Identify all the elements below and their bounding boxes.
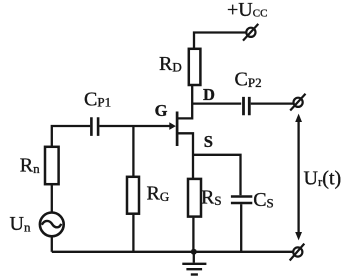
svg-text:Rn: Rn [20,155,40,177]
svg-text:CS: CS [253,189,274,211]
svg-text:+UCC: +UCC [227,0,267,21]
svg-text:CP2: CP2 [235,69,262,91]
svg-text:Ur(t): Ur(t) [304,168,342,190]
svg-text:Un: Un [10,213,31,235]
svg-text:CP1: CP1 [84,88,111,110]
svg-text:S: S [204,132,213,151]
svg-text:RS: RS [201,187,222,209]
svg-text:G: G [155,101,168,120]
svg-text:RD: RD [159,53,182,75]
svg-text:D: D [203,85,215,104]
svg-text:RG: RG [147,183,170,205]
